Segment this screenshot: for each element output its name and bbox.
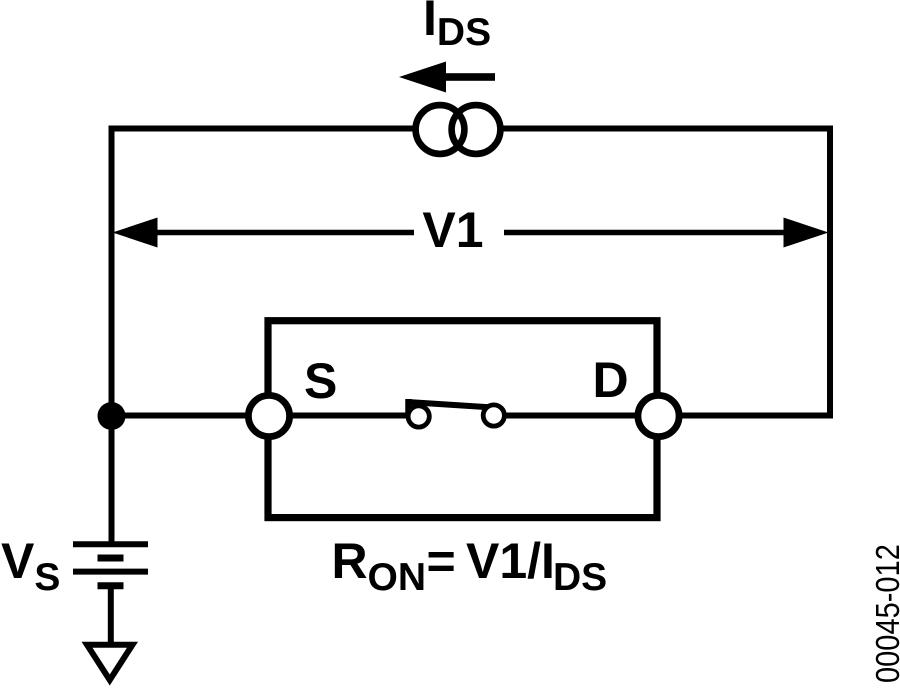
wire switch throw to D terminal: [504, 413, 639, 419]
battery VS: plate short upper: [98, 555, 124, 562]
svg-text:V1: V1: [422, 202, 483, 258]
terminal S (circle on box left edge): [248, 395, 289, 436]
switch lever (open switch arm): [408, 399, 498, 413]
svg-text:00045-012: 00045-012: [869, 544, 900, 683]
arrow IDS (current direction, pointing left): [399, 62, 495, 93]
wire main loop (right mid wire, right vertical, top wire, left vertical): [112, 129, 831, 542]
svg-text:=: =: [427, 533, 456, 589]
svg-text:DS: DS: [553, 556, 607, 599]
switch throw contact circle: [483, 405, 504, 426]
svg-text:D: D: [593, 352, 629, 408]
ground (open triangle): [87, 645, 133, 680]
battery VS: plate long top: [73, 541, 148, 547]
svg-text:ON: ON: [368, 556, 427, 599]
arrow V1 (double-headed measurement arrow): [113, 218, 829, 248]
svg-text:S: S: [304, 353, 337, 409]
wire from node to S terminal: [112, 413, 249, 419]
terminal D (circle on box right edge): [638, 395, 679, 436]
node A (junction dot at left): [98, 402, 126, 430]
battery VS: plate long bottom: [73, 569, 148, 575]
current source I1 (two overlapping circles): [416, 105, 501, 154]
battery VS: plate short lower: [98, 582, 124, 589]
wire battery to ground: [108, 589, 114, 643]
svg-text:V1/I: V1/I: [466, 533, 555, 589]
wire S terminal to switch pole: [289, 413, 408, 419]
switch box (DUT outline): [268, 321, 657, 518]
svg-text:R: R: [332, 533, 368, 589]
switch pole contact circle: [408, 406, 429, 427]
